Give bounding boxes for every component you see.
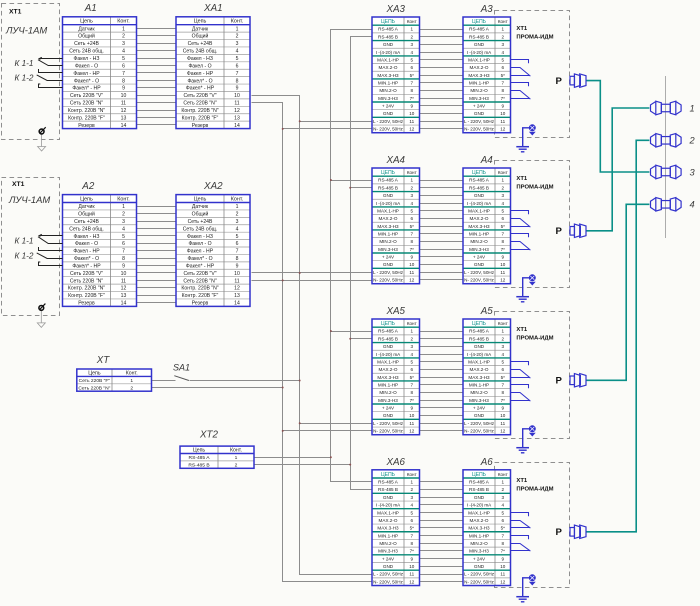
wire XA6.7-A6.7 [420, 527, 464, 529]
svg-text:4: 4 [122, 49, 125, 55]
pin 8: MIN.2-O [470, 541, 504, 546]
wire bus N: XA1.11 - XA6.14 [252, 103, 374, 582]
svg-text:4: 4 [501, 352, 504, 357]
svg-text:Общий: Общий [192, 211, 209, 218]
pin 10: GND [383, 262, 415, 267]
wire A1.9-XA1.9 [137, 87, 177, 89]
svg-text:MAX.2-O: MAX.2-O [470, 216, 489, 221]
junction F/XA4.13 [299, 272, 301, 274]
svg-text:MAX.3-Н3: MAX.3-Н3 [468, 224, 490, 229]
svg-text:MIN.3-Н3: MIN.3-Н3 [469, 549, 489, 554]
junction B/XT2.2 [349, 464, 351, 466]
wire XA2.11 - XA4.14 [252, 280, 373, 282]
pin 2: Общий [78, 33, 125, 40]
wire XA3.8-A3.8 [420, 82, 464, 84]
pin 11: L - 220V, 50Hz [464, 572, 506, 577]
svg-text:Конт: Конт [407, 170, 418, 175]
wire A2.6-XA2.6 [137, 243, 177, 245]
svg-text:Резерв: Резерв [192, 301, 209, 307]
svg-text:Конт: Конт [407, 472, 418, 477]
svg-text:I -(4-20) mA: I -(4-20) mA [467, 50, 492, 55]
pin 9: + 24V [473, 556, 505, 561]
wire A2.5-XA2.5 [137, 235, 177, 237]
svg-text:MIN.1-HP: MIN.1-HP [378, 533, 398, 538]
svg-text:GND: GND [383, 262, 394, 267]
svg-text:6: 6 [122, 241, 125, 247]
wire A1.3-XA1.3 [137, 43, 177, 45]
junction F/XA3.13 [299, 120, 301, 122]
wire A1.5-XA1.5 [137, 58, 177, 60]
svg-text:GND: GND [383, 193, 394, 198]
pin 7*: MIN.3-Н3 [378, 398, 414, 403]
svg-text:RS-485 B: RS-485 B [188, 462, 209, 468]
connector P4 [570, 525, 586, 538]
svg-text:MAX.1-HP: MAX.1-HP [377, 208, 399, 213]
svg-text:А1: А1 [84, 3, 97, 14]
svg-text:11: 11 [409, 421, 414, 426]
table ХА6 [372, 470, 420, 586]
pin 14: Резерв [192, 301, 240, 307]
svg-text:8: 8 [501, 239, 504, 244]
svg-text:Контр. 220В "N": Контр. 220В "N" [68, 108, 105, 114]
pin 4: Сеть 24В общ. [69, 49, 125, 55]
wire XA4.4-A4.4 [420, 203, 464, 205]
wire bus RS-485 B [351, 37, 374, 490]
svg-text:Сеть +24В: Сеть +24В [188, 219, 213, 225]
svg-text:2: 2 [235, 462, 238, 468]
wire XA3.5-A3.5 [420, 59, 464, 61]
svg-text:3: 3 [122, 41, 125, 47]
svg-text:8: 8 [122, 256, 125, 262]
pin 14: Резерв [192, 123, 240, 129]
svg-text:GND: GND [474, 495, 485, 500]
pin 4: I -(4-20) mA [376, 352, 414, 357]
enclosure XT1 ПРОМА-ИДМ #1 [495, 11, 570, 138]
pin 4: I -(4-20) mA [376, 201, 414, 206]
wire XA5.7-A5.7 [420, 377, 464, 379]
relay contact A5 MAX [511, 362, 531, 379]
pin 12: N- 220V, 50Hz [464, 429, 506, 434]
pin 9: Факел* - НР [186, 263, 239, 269]
svg-text:8: 8 [501, 88, 504, 93]
wire XA2.10 - XA4.13 [252, 272, 373, 274]
svg-text:Факел* - НР: Факел* - НР [186, 86, 215, 92]
wire XA3.13-A3.13 [420, 121, 464, 123]
pin 10: GND [383, 413, 415, 418]
svg-text:Конт: Конт [498, 170, 509, 175]
pin 13: Контр. 220В "F" [68, 293, 126, 299]
svg-text:6: 6 [410, 65, 413, 70]
svg-text:13: 13 [234, 293, 240, 299]
svg-text:7: 7 [236, 249, 239, 255]
relay contact A6 MAX [511, 513, 531, 529]
pin 11: L - 220V, 50Hz [373, 119, 415, 124]
svg-text:MAX.3-Н3: MAX.3-Н3 [468, 73, 490, 78]
svg-text:Сеть 220В "V": Сеть 220В "V" [183, 93, 216, 99]
svg-text:GND: GND [474, 564, 485, 569]
svg-text:1: 1 [690, 103, 695, 113]
svg-text:Факел - НР: Факел - НР [73, 71, 100, 77]
svg-text:Факел - НЗ: Факел - НЗ [74, 234, 100, 240]
pin 7*: MIN.3-Н3 [378, 247, 414, 252]
svg-text:Сеть 220В "V": Сеть 220В "V" [70, 271, 103, 277]
pin 7: MIN.1-HP [469, 81, 505, 86]
pin 8: MIN.2-O [379, 88, 413, 93]
junction A/XT2.1 [330, 456, 332, 458]
svg-text:3: 3 [236, 219, 239, 225]
wire XA5.14-A5.14 [420, 430, 464, 432]
pin 7: MIN.1-HP [469, 232, 505, 237]
svg-text:MIN.1-HP: MIN.1-HP [469, 533, 489, 538]
svg-text:MIN.1-HP: MIN.1-HP [378, 81, 398, 86]
svg-text:А5: А5 [480, 306, 494, 317]
svg-text:MAX.1-HP: MAX.1-HP [468, 208, 490, 213]
wire A2.10-XA2.10 [137, 272, 177, 274]
pin 7: MIN.1-HP [378, 533, 414, 538]
wire XA3.1-A3.1 [420, 29, 464, 31]
svg-text:Конт.: Конт. [117, 196, 129, 202]
wire A1.7-XA1.7 [137, 72, 177, 74]
svg-text:7: 7 [410, 533, 413, 538]
svg-text:Конт: Конт [407, 321, 418, 326]
svg-text:MAX.3-Н3: MAX.3-Н3 [377, 526, 399, 531]
svg-text:12: 12 [121, 108, 127, 114]
svg-text:5: 5 [410, 208, 413, 213]
svg-text:MIN.2-O: MIN.2-O [379, 239, 397, 244]
svg-text:10: 10 [234, 93, 240, 99]
svg-text:GND: GND [383, 564, 394, 569]
svg-text:ХА4: ХА4 [385, 155, 405, 166]
svg-text:1: 1 [130, 378, 133, 384]
pin 11: Сеть 220В "N" [70, 278, 126, 284]
svg-text:ХТ1: ХТ1 [516, 26, 528, 32]
pin 1: RS-485 A [469, 27, 504, 32]
svg-text:12: 12 [500, 429, 506, 434]
switch SA1 [174, 376, 189, 381]
junction N/XT.2 [282, 387, 284, 389]
enclosure XT1 ПРОМА-ИДМ #4 [495, 463, 570, 588]
wire XA5.4-A5.4 [420, 354, 464, 356]
pin 3: Сеть +24В [188, 219, 239, 225]
svg-text:5: 5 [410, 57, 413, 62]
wire A2.3-XA2.3 [137, 221, 177, 223]
svg-text:L - 220V, 50Hz: L - 220V, 50Hz [464, 270, 495, 275]
pin 10: GND [474, 413, 506, 418]
svg-text:L - 220V, 50Hz: L - 220V, 50Hz [464, 119, 495, 124]
svg-text:3: 3 [501, 42, 504, 47]
svg-text:MIN.3-Н3: MIN.3-Н3 [469, 398, 489, 403]
svg-text:ХТ: ХТ [96, 355, 111, 366]
pin 5: Факел - НЗ [74, 56, 126, 62]
svg-text:3: 3 [236, 41, 239, 47]
svg-text:9: 9 [410, 406, 413, 411]
svg-text:L - 220V, 50Hz: L - 220V, 50Hz [373, 270, 404, 275]
svg-text:N- 220V, 50Hz: N- 220V, 50Hz [373, 278, 403, 283]
svg-text:1: 1 [235, 455, 238, 461]
svg-text:8: 8 [236, 78, 239, 84]
svg-text:MIN.1-HP: MIN.1-HP [378, 383, 398, 388]
pin 3: GND [474, 344, 505, 349]
pin 13: Контр. 220В "F" [182, 293, 240, 299]
pin 1: RS-485 A [469, 178, 504, 183]
svg-text:RS-485 A: RS-485 A [378, 178, 399, 183]
pin 6: MAX.2-O [470, 518, 505, 523]
wire XA6.5-A6.5 [420, 512, 464, 514]
wire XA4.11-A4.11 [420, 256, 464, 258]
cable bundle line [665, 76, 667, 238]
svg-text:Сеть 220В "V": Сеть 220В "V" [183, 271, 216, 277]
svg-text:ХА2: ХА2 [203, 181, 223, 192]
svg-text:1: 1 [501, 480, 504, 485]
svg-text:2: 2 [122, 34, 125, 40]
svg-text:Контр. 220В "F": Контр. 220В "F" [182, 115, 219, 121]
svg-text:MAX.2-O: MAX.2-O [379, 367, 398, 372]
pin 8: Факел* - О [74, 78, 125, 84]
pin 2: Общий [192, 33, 239, 40]
pin 5*: MAX.3-Н3 [468, 526, 505, 531]
svg-text:Резерв: Резерв [78, 123, 95, 129]
pin 12: Контр. 220В "N" [181, 108, 240, 114]
wire XA4.8-A4.8 [420, 233, 464, 235]
svg-text:MAX.3-Н3: MAX.3-Н3 [377, 375, 399, 380]
svg-text:ПРОМА-ИДМ: ПРОМА-ИДМ [516, 184, 553, 190]
wire XA3.9-A3.9 [420, 90, 464, 92]
wire XA5.3-A5.3 [420, 346, 464, 348]
svg-text:Датчик: Датчик [192, 26, 209, 32]
svg-text:MAX.3-Н3: MAX.3-Н3 [377, 73, 399, 78]
svg-text:Сеть 220В "V": Сеть 220В "V" [70, 93, 103, 99]
svg-text:GND: GND [474, 42, 485, 47]
svg-text:ХА3: ХА3 [385, 4, 405, 15]
svg-text:1: 1 [501, 329, 504, 334]
svg-text:8: 8 [501, 541, 504, 546]
wire XT.2 to bus N [152, 387, 283, 389]
pin 12: N- 220V, 50Hz [373, 127, 415, 132]
pin 5: MAX.1-HP [468, 359, 504, 364]
svg-text:RS-485 A: RS-485 A [469, 480, 490, 485]
svg-text:MAX.1-HP: MAX.1-HP [377, 57, 399, 62]
table ХТ [77, 369, 152, 391]
wire bus RS-485 A [331, 30, 374, 482]
svg-text:13: 13 [234, 115, 240, 121]
pin 8: MIN.2-O [379, 541, 413, 546]
wire XA5.11-A5.11 [420, 407, 464, 409]
svg-text:ЛУЧ-1АМ: ЛУЧ-1АМ [5, 25, 47, 36]
pin 11: L - 220V, 50Hz [464, 119, 506, 124]
svg-text:RS-485 B: RS-485 B [378, 34, 398, 39]
svg-text:Контр. 220В "N": Контр. 220В "N" [181, 286, 218, 292]
svg-text:SA1: SA1 [173, 362, 190, 372]
svg-text:3: 3 [410, 193, 413, 198]
junction N/XA3.14 [282, 128, 284, 130]
pin 1: RS-485 A [469, 329, 504, 334]
svg-text:MAX.2-O: MAX.2-O [379, 65, 398, 70]
wire cable P1 to connector 3 [586, 81, 649, 172]
svg-text:12: 12 [409, 429, 415, 434]
pin 5: Факел - НЗ [187, 56, 239, 62]
wire stub F to XA3.13 [300, 121, 373, 123]
ground PE #1 [516, 125, 535, 152]
svg-text:10: 10 [121, 271, 127, 277]
wire XA6.3-A6.3 [420, 497, 464, 499]
svg-text:Резерв: Резерв [78, 301, 95, 307]
svg-text:RS-485 B: RS-485 B [469, 34, 489, 39]
svg-text:MAX.2-O: MAX.2-O [379, 216, 398, 221]
svg-text:4: 4 [410, 201, 413, 206]
pin 12: N- 220V, 50Hz [373, 278, 415, 283]
svg-text:MAX.2-O: MAX.2-O [379, 518, 398, 523]
svg-text:Конт: Конт [407, 19, 418, 24]
svg-text:5*: 5* [410, 73, 415, 78]
pin 6: Факел - О [75, 63, 125, 69]
svg-text:4: 4 [410, 50, 413, 55]
pin 7*: MIN.3-Н3 [378, 549, 414, 554]
svg-text:N- 220V, 50Hz: N- 220V, 50Hz [373, 579, 403, 584]
svg-text:MIN.1-HP: MIN.1-HP [469, 81, 489, 86]
wire XA3.3-A3.3 [420, 44, 464, 46]
svg-text:6: 6 [236, 241, 239, 247]
svg-text:I -(4-20) mA: I -(4-20) mA [376, 201, 401, 206]
svg-text:5: 5 [501, 57, 504, 62]
svg-text:Датчик: Датчик [78, 204, 95, 210]
table ХА5 [372, 319, 420, 435]
svg-text:ЦЕПЬ: ЦЕПЬ [381, 19, 396, 25]
svg-text:2: 2 [410, 34, 413, 39]
table А5 [463, 319, 511, 435]
table ХА4 [372, 168, 420, 284]
svg-text:11: 11 [121, 278, 126, 284]
pin 2: RS-485 B [469, 336, 504, 341]
pin 1: Датчик [192, 204, 239, 210]
wire stub B to XA4.2 [351, 187, 373, 189]
svg-text:MAX.1-HP: MAX.1-HP [377, 510, 399, 515]
wire XA4.10-A4.10 [420, 249, 464, 251]
wire XA6.6-A6.6 [420, 520, 464, 522]
relay contact K 1-2 [37, 75, 63, 88]
svg-text:10: 10 [409, 564, 415, 569]
svg-text:ПРОМА-ИДМ: ПРОМА-ИДМ [516, 34, 553, 40]
pin 9: Факел* - НР [72, 86, 125, 92]
svg-text:I -(4-20) mA: I -(4-20) mA [467, 352, 492, 357]
wire stub N to XA3.14 [283, 128, 373, 130]
svg-text:9: 9 [501, 255, 504, 260]
wire XA6.1-A6.1 [420, 481, 464, 483]
pin 5: MAX.1-HP [377, 510, 413, 515]
svg-text:ЦЕПЬ: ЦЕПЬ [381, 472, 396, 478]
wire XT.1 to SA1 [152, 380, 176, 382]
wire XA4.13-A4.13 [420, 272, 464, 274]
svg-text:12: 12 [234, 108, 240, 114]
table ХА3 [372, 17, 420, 133]
svg-text:L - 220V, 50Hz: L - 220V, 50Hz [373, 119, 404, 124]
relay contact K 1-1 [38, 235, 63, 251]
pin 12: Контр. 220В "N" [68, 108, 127, 114]
wire A1.4-XA1.4 [137, 50, 177, 52]
pin 5*: MAX.3-Н3 [468, 224, 505, 229]
svg-text:5*: 5* [501, 73, 506, 78]
svg-text:7: 7 [410, 383, 413, 388]
svg-text:I -(4-20) mA: I -(4-20) mA [467, 201, 492, 206]
svg-text:ХА1: ХА1 [203, 3, 223, 14]
wire A1.14-XA1.14 [137, 124, 177, 126]
svg-text:Факел* - О: Факел* - О [74, 78, 99, 84]
svg-text:7*: 7* [410, 398, 415, 403]
svg-text:L - 220V, 50Hz: L - 220V, 50Hz [373, 421, 404, 426]
pin 2: Общий [78, 211, 125, 218]
pin 9: Факел* - НР [186, 86, 239, 92]
pin 9: + 24V [382, 556, 414, 561]
svg-text:MAX.2-O: MAX.2-O [470, 367, 489, 372]
connector pair #1 [651, 101, 682, 115]
svg-text:9: 9 [122, 86, 125, 92]
svg-text:4: 4 [410, 352, 413, 357]
pin 7: MIN.1-HP [378, 383, 414, 388]
svg-text:5*: 5* [501, 375, 506, 380]
svg-text:3: 3 [501, 344, 504, 349]
svg-text:2: 2 [501, 487, 504, 492]
pin 7: MIN.1-HP [378, 232, 414, 237]
svg-text:8: 8 [236, 256, 239, 262]
svg-text:RS-485 B: RS-485 B [378, 336, 398, 341]
svg-text:Факел* - НР: Факел* - НР [72, 263, 101, 269]
wire cable P2 to connector 1 [586, 108, 649, 231]
svg-text:11: 11 [500, 421, 505, 426]
svg-text:10: 10 [409, 413, 415, 418]
table ХТ2 [180, 446, 254, 468]
svg-text:GND: GND [383, 495, 394, 500]
pin 3: GND [383, 495, 414, 500]
wire A1.1-XA1.1 [137, 28, 177, 30]
pin 3: GND [383, 193, 414, 198]
svg-text:MIN.2-O: MIN.2-O [379, 390, 397, 395]
table А6 [463, 470, 511, 586]
enclosure XT1 ПРОМА-ИДМ #3 [495, 312, 570, 439]
svg-text:6: 6 [501, 216, 504, 221]
table А4 [463, 168, 511, 284]
pin 3: Сеть +24В [188, 41, 239, 47]
svg-text:MIN.3-Н3: MIN.3-Н3 [469, 96, 489, 101]
svg-text:5: 5 [410, 510, 413, 515]
svg-text:7: 7 [410, 81, 413, 86]
pin 12: Контр. 220В "N" [68, 286, 127, 292]
svg-text:2: 2 [410, 336, 413, 341]
svg-text:6: 6 [410, 367, 413, 372]
pin 4: I -(4-20) mA [376, 50, 414, 55]
svg-text:7: 7 [122, 71, 125, 77]
svg-text:Сеть 24В общ.: Сеть 24В общ. [69, 49, 104, 55]
svg-text:2: 2 [122, 212, 125, 218]
wire bus F: XA1.10 - XA6.13 [252, 96, 374, 575]
svg-text:4: 4 [236, 226, 239, 232]
svg-text:N- 220V, 50Hz: N- 220V, 50Hz [464, 278, 494, 283]
pin 6: MAX.2-O [470, 65, 505, 70]
svg-text:ЦЕПЬ: ЦЕПЬ [472, 321, 487, 327]
svg-text:Цепь: Цепь [80, 19, 93, 25]
svg-text:MIN.2-O: MIN.2-O [470, 239, 488, 244]
pin 4: Сеть 24В общ. [183, 49, 239, 55]
pin 10: GND [474, 111, 506, 116]
svg-text:Р: Р [556, 76, 563, 87]
svg-text:ХТ1: ХТ1 [516, 176, 528, 182]
svg-text:MAX.3-Н3: MAX.3-Н3 [377, 224, 399, 229]
svg-text:1: 1 [122, 204, 125, 210]
svg-text:5: 5 [122, 234, 125, 240]
pin 3: GND [474, 495, 505, 500]
pin 11: Сеть 220В "N" [70, 101, 126, 107]
svg-text:7: 7 [122, 249, 125, 255]
svg-text:+ 24V: + 24V [382, 104, 395, 109]
svg-text:5: 5 [501, 208, 504, 213]
